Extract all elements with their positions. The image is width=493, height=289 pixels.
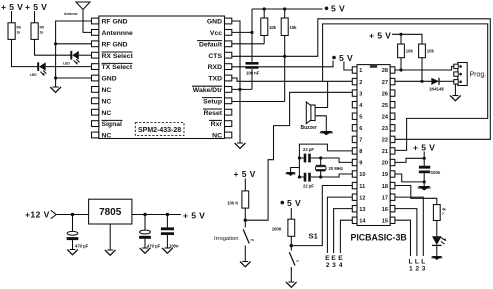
node +12V input label — [25, 210, 56, 220]
node +5V rail (top) — [252, 7, 323, 10]
IC U2 PICBASIC-3B microcontroller body — [351, 65, 407, 243]
resistor R9 1k (LED) — [433, 205, 445, 237]
pin NC (SPM left 11) — [92, 132, 112, 140]
svg-text:3: 3 — [359, 91, 362, 97]
wire SPM GND pin to ground — [232, 21, 242, 143]
wire pin20 to +5V junction — [395, 152, 426, 167]
wire PIC pin8 to crystal ground rail — [299, 144, 352, 158]
capacitor C1 100nF (Vcc decoupling) — [246, 63, 260, 89]
svg-text:6: 6 — [359, 126, 362, 132]
svg-text:5 V: 5 V — [287, 198, 301, 208]
ground (S1) — [286, 282, 297, 287]
node +5V label (PIC supply right) — [413, 143, 435, 153]
pin Wake/Dtr (SPM right 7) — [192, 86, 232, 94]
LED D4 — [432, 236, 446, 256]
svg-text:Setup: Setup — [203, 98, 222, 105]
svg-text:11: 11 — [359, 184, 365, 190]
pin RXD (SPM right 5) — [208, 64, 232, 71]
capacitor C4 100n (PIC decoupling) — [419, 167, 441, 182]
svg-text:100 nF: 100 nF — [246, 71, 260, 76]
node +5V supply label (top-left 1) — [1, 2, 23, 12]
svg-text:2: 2 — [326, 262, 330, 269]
wire pin27 to diode — [395, 80, 431, 83]
pin 23 (PIC right) — [382, 125, 395, 132]
wire 7805 output to +5V — [132, 213, 181, 216]
pin RX Select (SPM left 4) — [92, 52, 134, 60]
svg-text:LED: LED — [30, 73, 37, 77]
svg-text:+ 5 V: + 5 V — [234, 169, 256, 179]
regulator U3 7805 — [89, 199, 132, 224]
svg-text:L: L — [408, 259, 412, 266]
wire Default pin to R3 — [232, 43, 264, 45]
pin NC (SPM left 8) — [92, 98, 112, 106]
pin 22 (PIC right) — [382, 136, 395, 143]
svg-text:RF GND: RF GND — [102, 41, 128, 48]
pin 24 (PIC right) — [382, 113, 395, 120]
svg-text:20 MHz: 20 MHz — [329, 166, 343, 171]
wire +5V to R2 — [34, 11, 36, 23]
wire pin18 to LED resistor — [395, 186, 437, 205]
svg-text:100n: 100n — [431, 170, 441, 175]
pin 16 (PIC right) — [382, 206, 395, 213]
pin 28 (PIC right) — [382, 67, 395, 74]
svg-text:7: 7 — [359, 138, 362, 144]
pin 4 (PIC left) — [352, 102, 363, 109]
ground (C6) — [140, 248, 151, 253]
pin 11 (PIC left) — [352, 182, 365, 189]
pin 18 (PIC right) — [382, 182, 395, 189]
pin 5 (PIC left) — [352, 113, 362, 120]
svg-text:Irrogation: Irrogation — [214, 236, 239, 242]
svg-text:5 V: 5 V — [331, 4, 345, 14]
svg-text:2: 2 — [359, 80, 362, 86]
pin 19 (PIC right) — [382, 171, 395, 178]
svg-text:PICBASIC-3B: PICBASIC-3B — [351, 233, 407, 243]
svg-text:E: E — [338, 255, 343, 262]
pin GND (SPM left 6) — [92, 75, 117, 83]
svg-text:NC: NC — [102, 110, 112, 117]
svg-text:10k: 10k — [406, 49, 414, 54]
resistor R4 10k (CTS pullup) — [281, 9, 297, 102]
resistor R1 (1k pullup TX LED) — [8, 23, 21, 40]
switch S1 — [289, 232, 318, 283]
svg-text:27: 27 — [382, 80, 388, 86]
svg-text:100n: 100n — [169, 244, 179, 249]
LED D1 (RX Select) — [63, 51, 80, 66]
pin Vcc (SPM right 2) — [210, 30, 232, 38]
svg-text:22 pF: 22 pF — [303, 184, 314, 189]
wire buzzer top to TXD net — [315, 81, 328, 107]
svg-text:1: 1 — [359, 68, 362, 74]
svg-text:Prog.: Prog. — [470, 72, 487, 79]
pin NC (SPM left 9) — [92, 109, 112, 117]
svg-text:n: n — [297, 259, 299, 263]
svg-text:23: 23 — [382, 126, 388, 132]
resistor R3 10k (Default pullup) — [261, 9, 277, 44]
wire RXD pin to +5V point — [232, 61, 333, 67]
svg-text:21: 21 — [382, 149, 388, 155]
node +5V label (S1) — [281, 198, 302, 208]
resistor R10 100K (irrigation) — [227, 179, 249, 222]
pin 6 (PIC left) — [352, 125, 362, 132]
svg-text:L: L — [421, 259, 425, 266]
wire Vcc pin to +5V rail — [232, 9, 254, 62]
ground (SPM GND line) — [235, 143, 246, 148]
svg-text:9: 9 — [359, 161, 362, 167]
svg-text:10k: 10k — [269, 25, 277, 30]
wire net TXD loop (inner) to PIC pin21 — [323, 24, 488, 150]
svg-text:NC: NC — [102, 98, 112, 105]
wire Setup pin across — [232, 101, 285, 103]
wire Prog middle pin to ground — [454, 84, 456, 96]
svg-text:Antennne: Antennne — [102, 30, 134, 37]
svg-text:13: 13 — [359, 207, 365, 213]
node +5V supply label (top-left 2) — [25, 2, 47, 12]
LED D2 (TX Select) — [30, 62, 47, 77]
pin 10 (PIC left) — [352, 171, 365, 178]
pin Default (SPM right 3) — [197, 41, 232, 49]
svg-text:7805: 7805 — [99, 207, 122, 218]
ground (left rail) — [50, 87, 61, 92]
node +5V label (PIC programming) — [369, 31, 391, 41]
svg-text:Reset: Reset — [203, 110, 222, 117]
node L1 L2 L3 labels — [408, 259, 425, 273]
wire crystal top to PIC pin9 — [321, 158, 353, 162]
svg-text:22: 22 — [382, 138, 388, 144]
svg-text:SPM2-433-28: SPM2-433-28 — [138, 127, 181, 134]
svg-text:3: 3 — [332, 262, 336, 269]
wire RF GND pin3 to rail — [54, 42, 92, 45]
resistor R8 10k — [419, 44, 435, 81]
svg-text:NC: NC — [102, 133, 112, 140]
wire Wake/Dtr to GND net and C1 — [232, 88, 252, 90]
pin 27 (PIC right) — [382, 78, 395, 85]
svg-text:22 pF: 22 pF — [303, 147, 314, 152]
svg-text:NC: NC — [102, 87, 112, 94]
svg-text:25: 25 — [382, 103, 388, 109]
wire crystal bottom to PIC pin10 — [321, 174, 353, 177]
svg-text:R5: R5 — [40, 26, 44, 30]
wire 7805 ground pin — [109, 224, 111, 250]
wire +12V to regulator — [56, 213, 88, 216]
svg-text:16: 16 — [382, 207, 388, 213]
ground (LED) — [431, 256, 442, 260]
svg-text:24: 24 — [382, 114, 389, 120]
pin Reset (SPM right 9) — [203, 109, 232, 117]
wire net CTS loop (outer) to PIC pin22 — [285, 19, 491, 140]
pin NC (SPM right 11) — [212, 132, 232, 140]
svg-text:1N4148: 1N4148 — [429, 87, 444, 92]
wire crystal ground rail — [298, 156, 301, 178]
ground (7805) — [105, 250, 116, 255]
wire pin12 to E2 — [327, 197, 352, 253]
pin 21 (PIC right) — [382, 148, 395, 155]
pin RF GND (SPM left 1) — [92, 18, 128, 26]
pin 12 (PIC left) — [352, 194, 365, 201]
svg-text:TX Select: TX Select — [102, 64, 133, 71]
svg-text:Antenne: Antenne — [64, 12, 78, 16]
connector J1 Prog — [454, 63, 486, 86]
ground (crystal) — [286, 172, 296, 176]
svg-text:26: 26 — [382, 91, 388, 97]
wire pin14 to E4 — [340, 220, 352, 253]
svg-text:Vcc: Vcc — [210, 30, 222, 37]
svg-text:Default: Default — [199, 41, 223, 48]
svg-text:GND: GND — [102, 76, 117, 83]
svg-text:Signal: Signal — [102, 121, 123, 128]
svg-text:LED: LED — [63, 62, 70, 66]
svg-text:L: L — [415, 259, 419, 266]
svg-text:10k: 10k — [290, 25, 298, 30]
node +5V label (RXD pull / PIC pin1) — [332, 53, 353, 63]
svg-text:GND: GND — [207, 19, 222, 26]
svg-text:5 V: 5 V — [339, 53, 353, 63]
svg-text:10: 10 — [359, 172, 365, 178]
svg-text:10k: 10k — [427, 49, 435, 54]
svg-text:+12 V: +12 V — [25, 210, 50, 220]
svg-text:18: 18 — [382, 184, 388, 190]
wire pin17 to L3 — [395, 197, 423, 256]
ground (PIC cap) — [418, 186, 431, 191]
svg-text:+ 5 V: + 5 V — [369, 31, 391, 41]
wire PIC pin1 to +5V — [344, 62, 352, 71]
svg-text:TXD: TXD — [208, 76, 222, 83]
svg-text:Rxr: Rxr — [211, 121, 223, 128]
pin GND (SPM right 1) — [207, 18, 232, 26]
pin TX Select (SPM left 5) — [92, 63, 133, 71]
switch S2 irrigation — [214, 220, 254, 261]
svg-text:rs: rs — [251, 238, 254, 242]
svg-text:S1: S1 — [309, 232, 319, 241]
resistor R11 100K (S1) — [272, 208, 295, 247]
wire +5V to R1 — [11, 11, 13, 23]
wire R2 to LED D1 — [35, 39, 72, 55]
svg-text:R6: R6 — [17, 26, 21, 30]
wire rail tap to ground — [291, 168, 300, 173]
svg-text:1k: 1k — [40, 31, 44, 35]
pin 13 (PIC left) — [352, 206, 365, 213]
pin CTS (SPM right 4) — [208, 52, 231, 60]
ground (C5) — [67, 250, 78, 255]
diode D3 1N4148 — [429, 78, 444, 92]
pin 1 (PIC left) — [352, 67, 362, 74]
svg-text:RXD: RXD — [208, 64, 222, 71]
wire CTS pin to R4 junction — [232, 55, 287, 58]
resistor R2 (1k pullup RX LED) — [31, 23, 44, 40]
pin NC (SPM left 7) — [92, 87, 112, 95]
wire PIC pin11 to S1 — [291, 186, 352, 246]
svg-text:28: 28 — [382, 68, 388, 74]
pin RF GND (SPM left 3) — [92, 41, 128, 49]
svg-text:8: 8 — [359, 149, 362, 155]
IC U1 SPM2-433-28 radio module body — [99, 16, 225, 139]
pin 2 (PIC left) — [352, 78, 362, 85]
svg-text:7: 7 — [442, 212, 444, 216]
svg-text:CTS: CTS — [208, 53, 222, 60]
svg-text:E: E — [331, 255, 336, 262]
svg-text:+ 5 V: + 5 V — [183, 211, 205, 221]
svg-text:17: 17 — [382, 195, 388, 201]
svg-text:15: 15 — [382, 219, 388, 225]
svg-text:+ 5 V: + 5 V — [413, 143, 435, 153]
pin 15 (PIC right) — [382, 217, 395, 224]
wire RF GND pin1 to ground rail — [56, 21, 92, 87]
pin 3 (PIC left) — [352, 90, 362, 97]
pin 7 (PIC left) — [352, 136, 362, 143]
ground (C7) — [162, 248, 173, 253]
capacitor C7 100n output — [161, 215, 179, 249]
node E2 E3 E4 labels — [325, 255, 343, 269]
svg-text:Buzzer: Buzzer — [301, 125, 317, 131]
node +5V output label — [183, 211, 205, 221]
pin 25 (PIC right) — [382, 102, 395, 109]
svg-text:2: 2 — [415, 266, 419, 273]
wire pin15 to L1 — [395, 220, 411, 256]
capacitor C2 22pF — [299, 147, 320, 162]
wire PIC pin3 to irrigation switch — [245, 92, 352, 220]
svg-text:20: 20 — [382, 161, 388, 167]
wire R1 to LED D2 — [12, 39, 39, 66]
pin 20 (PIC right) — [382, 159, 395, 166]
node +5V label (top rail) — [325, 4, 345, 14]
ground (buzzer) — [320, 131, 333, 135]
svg-text:RX Select: RX Select — [102, 53, 134, 60]
ground (irrigation) — [240, 262, 251, 267]
pin 14 (PIC left) — [352, 217, 366, 224]
capacitor C5 470uF input — [67, 215, 89, 250]
svg-text:+ 5 V: + 5 V — [1, 2, 23, 12]
wire TXD pin to PIC pin2 — [232, 78, 352, 81]
node +5V prog rail — [392, 33, 422, 44]
svg-text:100K: 100K — [272, 227, 282, 232]
resistor R7 10k (MCLR pullup) — [398, 34, 414, 70]
buzzer BZ1 — [301, 102, 317, 131]
pin Setup (SPM right 8) — [202, 98, 232, 106]
wire pin28 to Prog connector — [395, 66, 454, 71]
svg-text:470 µF: 470 µF — [75, 243, 89, 248]
wire pin19 to cap bottom / ground — [395, 174, 426, 186]
pin 26 (PIC right) — [382, 90, 395, 97]
capacitor C3 22pF — [299, 173, 320, 189]
wire GND pin6 to rail — [54, 76, 92, 79]
node +5V label (irrigation) — [234, 169, 256, 179]
pin TXD (SPM right 6) — [208, 75, 231, 83]
svg-text:100 K: 100 K — [227, 201, 238, 206]
ground (Prog) — [450, 96, 461, 101]
svg-text:E: E — [325, 255, 330, 262]
pin 17 (PIC right) — [382, 194, 395, 201]
pin 8 (PIC left) — [352, 148, 362, 155]
wire LED D2 to TX Select pin — [46, 66, 92, 68]
svg-text:4: 4 — [339, 262, 343, 269]
svg-text:470 µF: 470 µF — [147, 243, 161, 248]
wire diode to Prog connector — [439, 80, 454, 82]
crystal X1 20 MHz — [316, 156, 343, 178]
wire pin16 to L2 — [395, 209, 417, 256]
antenna — [64, 2, 92, 32]
svg-text:5: 5 — [359, 114, 362, 120]
wire LED D1 to RX Select pin — [79, 54, 92, 56]
svg-text:14: 14 — [359, 219, 366, 225]
svg-text:Wake/Dtr: Wake/Dtr — [193, 87, 223, 94]
svg-text:19: 19 — [382, 172, 388, 178]
svg-text:12: 12 — [359, 195, 365, 201]
wire pin13 to E3 — [334, 209, 353, 253]
svg-text:NC: NC — [212, 133, 222, 140]
wire buzzer bottom to ground — [315, 116, 326, 131]
pin Rxr (SPM right 10) — [209, 120, 232, 128]
svg-text:4k: 4k — [442, 208, 446, 212]
svg-text:1: 1 — [409, 266, 413, 273]
pin Antennne (SPM left 2) — [92, 30, 134, 38]
pin 9 (PIC left) — [352, 159, 362, 166]
svg-text:RF GND: RF GND — [102, 19, 128, 26]
capacitor C6 470uF output — [139, 215, 160, 249]
pin Signal (SPM left 10) — [92, 120, 123, 128]
svg-text:+ 5 V: + 5 V — [25, 2, 47, 12]
svg-text:1k: 1k — [17, 31, 21, 35]
svg-text:3: 3 — [422, 266, 426, 273]
